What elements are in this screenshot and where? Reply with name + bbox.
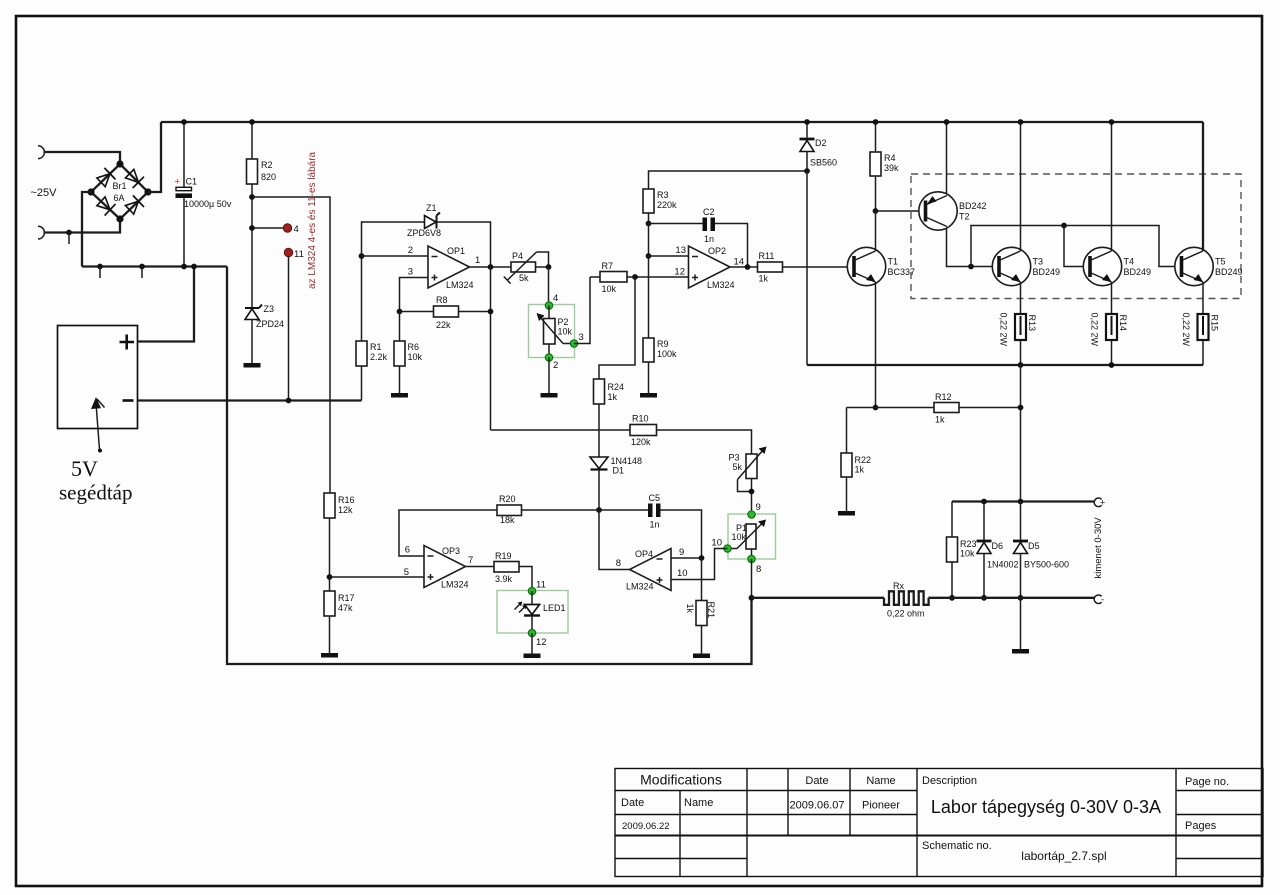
svg-text:Page no.: Page no.	[1185, 776, 1229, 788]
resistor R11 1k	[758, 251, 783, 284]
red tap node 4	[252, 227, 283, 229]
wire T4 base drop	[1064, 226, 1089, 267]
wire R2 bottom to R16 column	[252, 197, 330, 493]
svg-text:OP1: OP1	[447, 246, 465, 256]
svg-text:R2: R2	[261, 160, 273, 170]
svg-text:1k: 1k	[935, 415, 945, 425]
svg-text:Date: Date	[805, 775, 828, 787]
wire R22 to ground	[846, 477, 848, 511]
svg-text:R20: R20	[499, 494, 516, 504]
svg-text:10k: 10k	[408, 352, 423, 362]
resistor R23 10k	[947, 502, 977, 563]
svg-text:R22: R22	[855, 455, 872, 465]
op-amp OP3 LM324	[424, 546, 473, 590]
wire D1 to C5 node	[598, 470, 600, 511]
svg-text:11: 11	[536, 580, 546, 591]
5V segedtap auxiliary supply block	[58, 326, 138, 505]
wire R12 line	[847, 407, 935, 409]
node OP2 pin12	[632, 274, 638, 280]
svg-text:ZPD6V8: ZPD6V8	[407, 228, 441, 238]
wire OP2 pin13	[648, 224, 650, 339]
title block table	[615, 769, 1263, 877]
resistor R13 0,22 2W	[999, 313, 1038, 347]
wire Z3 branch down	[251, 197, 253, 308]
wire R16/R17 node to OP3 pin5	[330, 576, 425, 578]
svg-text:Labor tápegység 0-30V 0-3A: Labor tápegység 0-30V 0-3A	[931, 797, 1161, 817]
resistor R7 10k	[600, 261, 627, 294]
svg-text:1N4148: 1N4148	[611, 456, 643, 466]
svg-text:12: 12	[674, 267, 685, 278]
svg-text:10k: 10k	[960, 549, 975, 559]
capacitor C2 1n	[649, 207, 748, 267]
node D2 / R3 feedback	[804, 168, 810, 174]
node pin 8 (green)	[751, 549, 753, 559]
wire OP1 pin2 to triangle	[362, 255, 429, 257]
wire 5V block + to minus rail	[138, 267, 195, 342]
node C5/R21/pin9	[699, 555, 705, 561]
wire R11 to T1 base	[783, 266, 855, 268]
svg-text:1n: 1n	[650, 520, 660, 530]
transistor T2 BD242	[919, 192, 987, 230]
potentiometer P1 10k	[728, 520, 767, 550]
wire R14 to emitter bus	[1111, 340, 1113, 365]
node T1 emitter / R12	[873, 405, 879, 411]
wire OP4 pin10 input to P1 wiper	[671, 549, 728, 580]
svg-text:~25V: ~25V	[31, 187, 58, 199]
svg-text:R24: R24	[608, 382, 625, 392]
node pin 4 (green)	[545, 302, 552, 309]
wire T2 collector to driver node	[947, 228, 996, 267]
svg-text:R9: R9	[657, 339, 669, 349]
svg-text:R21: R21	[706, 602, 716, 619]
resistor R17 47k	[324, 591, 355, 616]
svg-text:kimenet 0-30V: kimenet 0-30V	[1093, 517, 1104, 579]
wire R6 to ground	[399, 366, 401, 393]
diode D2 SB560	[800, 122, 838, 171]
red tap node 11	[284, 248, 292, 256]
stub on minus rail 2	[139, 264, 145, 270]
svg-text:R1: R1	[370, 342, 382, 352]
resistor R4 39k	[870, 122, 899, 176]
node R14 bus	[1109, 362, 1115, 368]
svg-text:3: 3	[579, 332, 584, 343]
node R3/C2	[646, 221, 652, 227]
wire R15 to emitter bus corner	[1202, 340, 1204, 365]
LED LED1	[515, 591, 566, 616]
svg-text:10k: 10k	[732, 532, 747, 542]
resistor R8 22k feedback	[434, 295, 459, 330]
svg-text:Name: Name	[866, 775, 895, 787]
wire 5V block - output rail	[138, 399, 362, 401]
wire P4 wiper + right terminal tie	[537, 252, 549, 267]
svg-text:LM324: LM324	[626, 582, 654, 592]
wire OP3 pin6 feedback	[399, 510, 497, 556]
svg-text:BD242: BD242	[959, 201, 987, 211]
svg-text:2: 2	[408, 245, 413, 256]
svg-text:7: 7	[468, 555, 473, 566]
svg-text:C5: C5	[649, 493, 661, 503]
node OP2 pin13	[646, 253, 652, 259]
resistor R6 10k	[394, 341, 423, 366]
svg-text:SB560: SB560	[810, 158, 837, 168]
wire P2 wiper to R7	[574, 277, 590, 344]
wire T5 emitter to R15	[1202, 282, 1204, 314]
svg-text:LM324: LM324	[707, 280, 735, 290]
potentiometer P4 5k	[504, 251, 537, 284]
transistor T3 BD249	[992, 247, 1060, 285]
svg-text:R23: R23	[960, 539, 977, 549]
resistor R19 3.9k	[494, 551, 519, 584]
junction + stub on lower AC input	[66, 230, 72, 236]
wire T3 emitter to R13	[1020, 282, 1022, 314]
capacitor C5 1n	[599, 493, 702, 558]
svg-text:D6: D6	[992, 541, 1004, 551]
node OP1 out	[488, 264, 494, 270]
ground Z3	[244, 363, 261, 368]
node base drive T4 tap	[1061, 223, 1067, 229]
svg-text:22k: 22k	[436, 320, 451, 330]
wire T2 emitter to top bus	[946, 122, 948, 194]
node R23 minus rail	[949, 595, 955, 601]
svg-text:BD249: BD249	[1215, 267, 1243, 277]
svg-text:+: +	[1100, 498, 1105, 508]
node D2 top bus	[804, 119, 810, 125]
op-amp OP2 LM324	[689, 246, 745, 290]
svg-text:-: -	[1101, 595, 1104, 605]
svg-text:0,22 2W: 0,22 2W	[999, 313, 1009, 347]
wire emitter resistor bus y365	[807, 364, 1203, 366]
svg-text:R13: R13	[1027, 315, 1037, 332]
svg-text:T4: T4	[1124, 257, 1135, 267]
svg-text:13: 13	[675, 245, 686, 256]
wire R10 line from OP1 out column to P3	[491, 429, 631, 431]
svg-text:10000µ 50v: 10000µ 50v	[184, 199, 232, 209]
svg-text:3: 3	[408, 267, 413, 278]
svg-text:C1: C1	[186, 177, 198, 187]
transistor T1 BC337	[847, 247, 915, 285]
transistor T5 BD249	[1175, 247, 1243, 285]
svg-text:LED1: LED1	[543, 603, 566, 613]
svg-text:BD249: BD249	[1033, 267, 1061, 277]
node OP1 pin2	[359, 253, 365, 259]
svg-text:14: 14	[734, 257, 745, 268]
resistor R12 1k	[934, 392, 959, 425]
svg-text:LM324: LM324	[441, 580, 469, 590]
wire R8 line	[400, 311, 434, 313]
svg-text:39k: 39k	[884, 163, 899, 173]
svg-text:1k: 1k	[855, 465, 865, 475]
svg-text:47k: 47k	[338, 603, 353, 613]
wire OP2 output to R11	[730, 266, 758, 268]
svg-text:2009.06.07: 2009.06.07	[789, 800, 844, 812]
svg-text:BD249: BD249	[1124, 267, 1152, 277]
svg-text:5V: 5V	[71, 456, 98, 481]
svg-text:segédtáp: segédtáp	[59, 481, 132, 505]
wire D2 down to emitter bus	[806, 171, 808, 365]
wire top +V bus	[161, 121, 1203, 123]
node R8 right	[488, 309, 494, 315]
resistor R21 1k (vertical labels)	[685, 558, 716, 626]
svg-text:4: 4	[553, 293, 558, 304]
svg-text:6A: 6A	[114, 193, 125, 203]
svg-text:5: 5	[404, 567, 409, 578]
wire R3 top / feedback line to D2 column	[649, 171, 808, 189]
svg-text:2009.06.22: 2009.06.22	[622, 821, 670, 832]
svg-text:0,22 2W: 0,22 2W	[1090, 313, 1100, 347]
svg-text:OP4: OP4	[635, 549, 653, 559]
wire Z1 feedback loop	[362, 222, 425, 256]
diode D1 1N4148	[590, 456, 642, 476]
svg-text:1N4002: 1N4002	[987, 560, 1019, 570]
svg-text:D5: D5	[1028, 541, 1040, 551]
svg-text:2.2k: 2.2k	[370, 352, 388, 362]
resistor R10 120k	[630, 414, 657, 448]
svg-text:6: 6	[405, 545, 410, 556]
op-amp OP4 LM324 (mirrored)	[626, 549, 671, 592]
wire OP4 output to D1 node	[599, 510, 630, 570]
wire T4 emitter to R14	[1111, 282, 1113, 314]
wire + output rail	[952, 500, 1095, 502]
svg-text:10: 10	[677, 568, 688, 579]
resistor R20 18k	[497, 494, 522, 525]
wire OP4 pin9 input	[671, 557, 702, 559]
ground R6	[391, 393, 408, 398]
wire R3 bottom to C2 node	[648, 213, 650, 224]
svg-text:OP3: OP3	[442, 546, 460, 556]
wire OP1 output	[470, 266, 512, 268]
svg-text:8: 8	[756, 564, 761, 575]
wire R13 to emitter bus	[1020, 340, 1022, 365]
wire R7 left	[590, 276, 600, 278]
node P4/P2 tie	[546, 264, 552, 270]
wire common return: left column and bottom bus	[227, 267, 752, 665]
resistor R24 1k	[594, 379, 625, 404]
node pin 11 (green)	[528, 587, 535, 594]
diode D5 BY500-600	[1013, 502, 1069, 598]
svg-text:Name: Name	[684, 797, 713, 809]
~25V AC input connector (lower)	[38, 226, 44, 239]
ground R22	[838, 511, 855, 516]
svg-text:220k: 220k	[657, 200, 677, 210]
svg-text:R15: R15	[1210, 315, 1220, 332]
wire R21 to ground	[701, 626, 703, 654]
capacitor C1 10000u 50v	[175, 122, 232, 267]
wire LED to ground	[531, 633, 533, 654]
node D5 minus rail	[1018, 595, 1024, 601]
svg-text:18k: 18k	[500, 515, 515, 525]
wire bridge - (left vertex) down to bottom rail	[82, 192, 91, 267]
svg-text:12k: 12k	[338, 505, 353, 515]
ground P2	[541, 393, 558, 398]
ground R17	[321, 653, 338, 658]
title block texts	[621, 772, 1229, 864]
node R4 top bus	[873, 119, 879, 125]
svg-text:R11: R11	[759, 251, 775, 261]
connector green box LED1	[497, 591, 568, 634]
connector green box P1	[728, 514, 776, 559]
node T4 collector bus	[1109, 119, 1115, 125]
output connector +	[1094, 498, 1101, 507]
svg-text:Z1: Z1	[426, 203, 437, 213]
svg-text:D2: D2	[815, 138, 827, 148]
svg-text:+: +	[175, 177, 181, 188]
svg-text:R17: R17	[338, 593, 355, 603]
svg-text:820: 820	[261, 172, 276, 182]
node C1/-rail junction	[181, 264, 187, 270]
svg-text:12: 12	[536, 637, 547, 648]
svg-text:Date: Date	[621, 797, 644, 809]
wire P1 bottom to output minus rail	[751, 559, 753, 598]
node R2 bottom / Z3	[249, 194, 255, 200]
wire upper AC input to bridge top	[44, 152, 121, 164]
wire R19 to LED1	[519, 567, 532, 592]
ground output	[1012, 649, 1029, 654]
stub on minus rail 1	[97, 264, 103, 270]
wire R1 top to OP1 pin2 node	[361, 256, 363, 341]
svg-text:8: 8	[616, 558, 621, 569]
svg-text:R19: R19	[495, 551, 512, 561]
wire R20 to D1/C5 node	[522, 509, 599, 511]
svg-text:ZPD24: ZPD24	[256, 319, 284, 329]
wire emitter bus down to + output	[1020, 365, 1022, 502]
wire bridge + (right vertex) up to top bus	[148, 122, 161, 192]
ground R21	[693, 654, 710, 659]
node C1/+bus junction	[181, 119, 187, 125]
svg-text:R4: R4	[884, 153, 896, 163]
output connector -	[1094, 595, 1101, 604]
node OP2 out / C2	[745, 264, 751, 270]
wire OP1 inverting input node (from -5V rail up)	[361, 366, 363, 401]
svg-text:5k: 5k	[519, 273, 529, 283]
wire T4 collector to top bus	[1111, 122, 1113, 251]
wire R6 top	[399, 312, 401, 342]
wire pin12 node down to R24	[599, 277, 635, 379]
svg-text:T2: T2	[959, 212, 970, 222]
svg-text:R8: R8	[436, 295, 448, 305]
potentiometer P2 10k	[537, 306, 573, 345]
svg-text:4: 4	[294, 224, 299, 235]
node D1/R20/C5/OP4out	[596, 507, 602, 513]
svg-text:R6: R6	[408, 342, 420, 352]
svg-text:LM324: LM324	[446, 280, 474, 290]
node pin 9 (green)	[748, 511, 755, 518]
svg-text:Br1: Br1	[113, 181, 127, 191]
wire lower AC input to bridge bottom	[44, 219, 121, 233]
svg-text:az LM324 4-es és 11-es lábára: az LM324 4-es és 11-es lábára	[307, 151, 318, 289]
node T3 collector bus	[1018, 119, 1024, 125]
wire OP3 output to R19	[466, 566, 495, 568]
node R2 top	[249, 119, 255, 125]
svg-text:1n: 1n	[704, 234, 714, 244]
svg-text:0,22 2W: 0,22 2W	[1181, 313, 1191, 347]
resistor R22 1k	[841, 408, 871, 478]
svg-text:11: 11	[294, 249, 304, 260]
~25V AC input connector (upper)	[38, 146, 44, 159]
wire P3 bottom to node 9	[751, 479, 753, 515]
svg-text:D1: D1	[613, 466, 625, 476]
ground LED1	[524, 654, 541, 659]
resistor R1 2.2k	[356, 341, 388, 366]
node pin 2 (green)	[548, 344, 550, 358]
svg-text:R3: R3	[657, 190, 669, 200]
svg-text:1k: 1k	[759, 274, 769, 284]
wire T1 emitter down to R12 line	[875, 282, 877, 408]
svg-text:9: 9	[679, 547, 684, 558]
wire OP1 pin3 input	[400, 278, 429, 312]
resistor R14 0,22 2W	[1090, 313, 1129, 347]
wire R17 to ground	[329, 616, 331, 653]
wire D5 node to ground	[1020, 598, 1022, 649]
wire R4 bottom to T1 collector node	[875, 176, 877, 211]
potentiometer P3 5k	[729, 447, 767, 492]
wire R9 to ground	[648, 362, 650, 393]
svg-text:labortáp_2.7.spl: labortáp_2.7.spl	[1021, 849, 1106, 863]
node R13 bus	[1018, 362, 1024, 368]
svg-text:BC337: BC337	[888, 267, 916, 277]
svg-text:2: 2	[553, 360, 558, 371]
svg-text:10k: 10k	[558, 327, 573, 337]
node + rail / D5	[1018, 499, 1024, 505]
wire R7 right to OP2 pin12	[627, 276, 689, 278]
node pin4 tap	[249, 225, 255, 231]
node T2 emitter top bus	[944, 119, 950, 125]
wire T1 collector up	[875, 211, 877, 251]
node T1 collector / T2 base	[873, 208, 879, 214]
svg-text:Z3: Z3	[264, 304, 275, 314]
node R16/R17 divider	[327, 574, 333, 580]
wire T3 collector to top bus	[1020, 122, 1022, 251]
node 11/-5V junction	[286, 398, 292, 404]
resistor R2 820	[247, 122, 277, 197]
connector green box P2	[529, 305, 575, 358]
ground R9	[640, 393, 657, 398]
svg-text:Rx: Rx	[893, 581, 904, 591]
shunt resistor Rx 0,22 ohm	[752, 581, 929, 619]
svg-text:Description: Description	[922, 775, 977, 787]
svg-text:R12: R12	[935, 392, 952, 402]
svg-text:Pages: Pages	[1185, 820, 1217, 832]
svg-text:R10: R10	[632, 414, 649, 424]
node pin 10 (green)	[724, 545, 731, 552]
svg-text:1k: 1k	[685, 604, 695, 614]
node base drive T3	[968, 264, 974, 270]
svg-text:Pioneer: Pioneer	[862, 800, 900, 812]
svg-text:Modifications: Modifications	[640, 772, 722, 788]
bridge rectifier Br1 6A	[87, 160, 151, 222]
node pin 12 (green)	[531, 616, 533, 633]
wire down to P2	[548, 267, 550, 306]
svg-text:P3: P3	[729, 453, 740, 463]
svg-text:T3: T3	[1033, 257, 1044, 267]
svg-text:R14: R14	[1118, 315, 1128, 332]
wire P2 bottom to ground	[548, 358, 550, 394]
wire R23 bottom to minus rail	[951, 562, 953, 598]
node R12 right	[1018, 405, 1024, 411]
node bottom bus / minus rail	[749, 595, 755, 601]
svg-text:9: 9	[756, 502, 761, 513]
svg-text:1: 1	[475, 255, 480, 266]
svg-text:OP2: OP2	[708, 246, 726, 256]
svg-text:100k: 100k	[657, 349, 677, 359]
node P3 wiper tie	[749, 489, 755, 495]
svg-text:Schematic no.: Schematic no.	[922, 840, 992, 852]
dashed box around power transistors	[911, 174, 1241, 299]
resistor R3 220k	[643, 189, 677, 213]
svg-text:R16: R16	[338, 495, 355, 505]
svg-text:3.9k: 3.9k	[495, 574, 513, 584]
svg-text:1k: 1k	[608, 392, 618, 402]
wire OP1 out column down to R8/R10	[490, 267, 492, 430]
